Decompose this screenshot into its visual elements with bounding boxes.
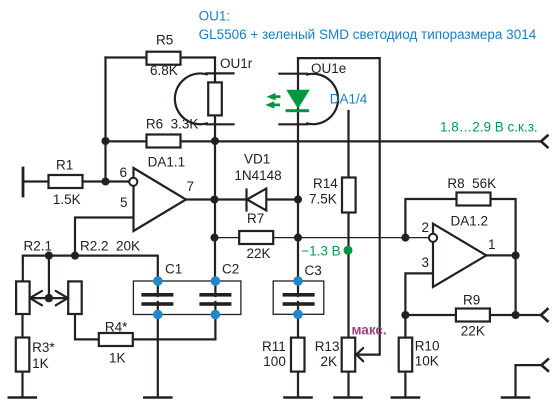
svg-text:C1: C1 (165, 262, 182, 277)
svg-text:10K: 10K (415, 354, 439, 369)
svg-text:R14: R14 (313, 176, 338, 191)
svg-text:1.5K: 1.5K (53, 192, 81, 207)
svg-text:R3*: R3* (32, 340, 55, 355)
svg-text:1K: 1K (109, 351, 126, 366)
svg-text:2K: 2K (321, 354, 338, 369)
svg-text:22K: 22K (247, 246, 271, 261)
svg-text:5: 5 (120, 195, 128, 210)
svg-text:6.8K: 6.8K (150, 63, 178, 78)
svg-text:6: 6 (120, 165, 128, 180)
svg-text:2: 2 (422, 220, 430, 235)
svg-text:7: 7 (187, 179, 195, 194)
svg-text:22K: 22K (461, 324, 485, 339)
svg-text:R13: R13 (315, 339, 340, 354)
svg-text:OU1e: OU1e (311, 61, 346, 76)
svg-text:DA1.1: DA1.1 (148, 155, 186, 170)
svg-text:VD1: VD1 (244, 151, 270, 166)
svg-text:1K: 1K (32, 356, 49, 371)
svg-text:1: 1 (488, 237, 496, 252)
svg-text:R2.2 20K: R2.2 20K (80, 239, 140, 254)
svg-text:R6 3.3K: R6 3.3K (146, 116, 199, 131)
svg-text:OU1:: OU1: (199, 9, 231, 24)
svg-text:1.8…2.9 В с.к.з.: 1.8…2.9 В с.к.з. (440, 120, 538, 135)
svg-text:100: 100 (263, 354, 286, 369)
svg-text:R11: R11 (262, 339, 286, 354)
svg-text:R10: R10 (415, 339, 440, 354)
svg-text:DA1/4: DA1/4 (330, 92, 368, 107)
svg-text:R1: R1 (56, 158, 73, 173)
svg-text:макс.: макс. (352, 323, 387, 338)
svg-text:C3: C3 (305, 263, 322, 278)
svg-text:OU1r: OU1r (220, 56, 253, 71)
svg-text:R8 56K: R8 56K (447, 176, 496, 191)
svg-text:R4*: R4* (105, 320, 128, 335)
svg-text:DA1.2: DA1.2 (451, 214, 489, 229)
svg-text:R7: R7 (247, 211, 264, 226)
svg-text:7.5K: 7.5K (309, 192, 337, 207)
svg-text:R9: R9 (463, 293, 480, 308)
svg-text:R2.1: R2.1 (24, 239, 53, 254)
svg-text:GL5506 + зеленый SMD светодиод: GL5506 + зеленый SMD светодиод типоразме… (199, 27, 537, 42)
svg-text:C2: C2 (222, 262, 239, 277)
svg-text:−1.3 В: −1.3 В (301, 244, 340, 259)
svg-text:1N4148: 1N4148 (234, 168, 281, 183)
svg-text:3: 3 (422, 255, 430, 270)
svg-text:R5: R5 (156, 33, 173, 48)
